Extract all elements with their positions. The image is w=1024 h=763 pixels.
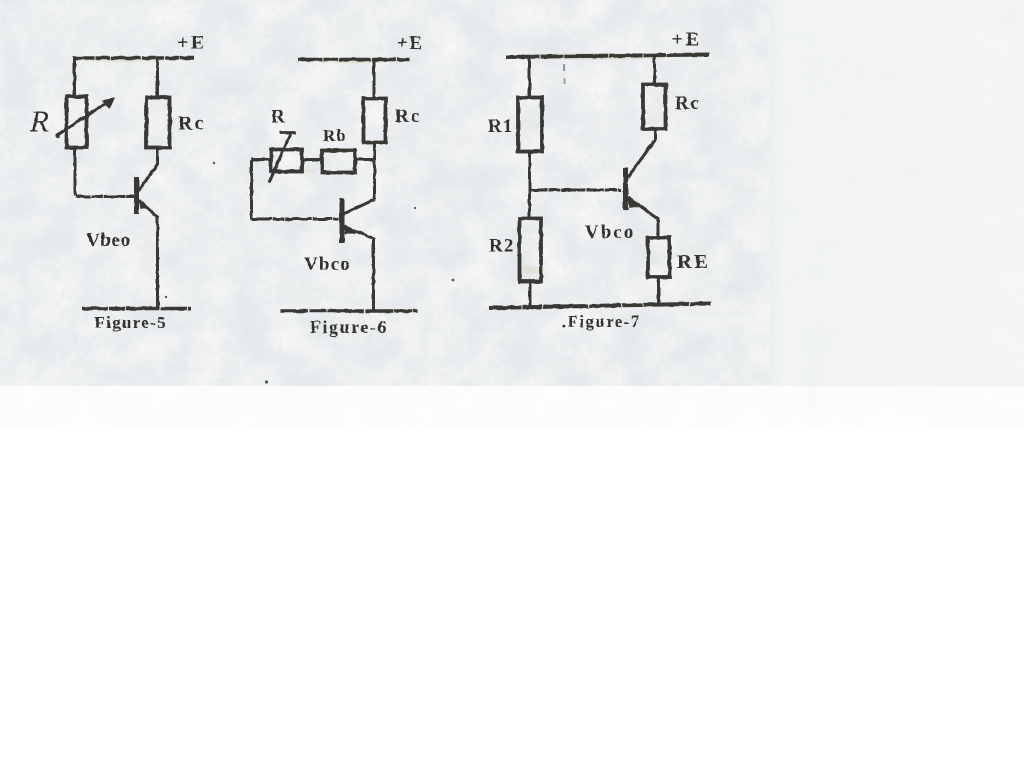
svg-text:Rc: Rc: [178, 113, 205, 135]
svg-text:RE: RE: [677, 251, 710, 273]
svg-text:Rc: Rc: [395, 106, 421, 127]
svg-text:+E: +E: [397, 33, 424, 54]
svg-text:+E: +E: [672, 29, 702, 51]
svg-text:Vbeo: Vbeo: [86, 230, 131, 251]
svg-text:+E: +E: [177, 32, 207, 54]
svg-text:R: R: [271, 107, 285, 128]
svg-text:Vbco: Vbco: [585, 222, 635, 243]
svg-text:R1: R1: [488, 116, 513, 137]
svg-text:R2: R2: [489, 236, 515, 257]
svg-text:.Figure-7: .Figure-7: [562, 312, 641, 331]
svg-text:R: R: [29, 104, 49, 139]
svg-text:Figure-6: Figure-6: [310, 317, 388, 337]
svg-text:Figure-5: Figure-5: [95, 313, 167, 332]
svg-text:Rc: Rc: [675, 93, 701, 114]
svg-text:Vbco: Vbco: [304, 254, 351, 275]
svg-text:Rb: Rb: [323, 126, 347, 145]
